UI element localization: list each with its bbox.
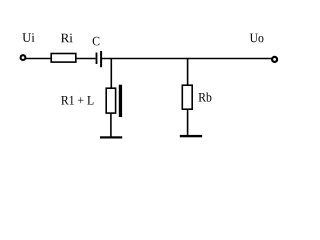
capacitor C left plate bbox=[96, 53, 98, 65]
resistor Rb bbox=[182, 85, 192, 109]
resistor R1 bbox=[106, 88, 115, 113]
wire Rb to ground bbox=[187, 110, 189, 136]
ground right bbox=[180, 135, 202, 137]
input terminal Ui bbox=[21, 55, 26, 60]
inductor L bar bbox=[119, 85, 122, 117]
label Ri bbox=[61, 34, 73, 43]
wire input terminal to Ri bbox=[26, 58, 51, 60]
label Ui bbox=[22, 33, 34, 42]
wire R1 to ground bbox=[110, 114, 112, 137]
ground left bbox=[100, 136, 122, 138]
resistor Ri bbox=[51, 54, 76, 63]
label R1 + L bbox=[61, 96, 93, 105]
label Rb bbox=[199, 92, 212, 101]
label C bbox=[93, 37, 100, 46]
wire branch down to Rb bbox=[187, 58, 189, 85]
node A wire branch down to R1 bbox=[110, 58, 112, 89]
output terminal Uo bbox=[272, 57, 277, 62]
label Uo bbox=[250, 34, 264, 43]
wire C to output terminal bbox=[102, 58, 272, 60]
wire Ri to C bbox=[77, 58, 96, 60]
capacitor C right plate bbox=[100, 51, 102, 67]
